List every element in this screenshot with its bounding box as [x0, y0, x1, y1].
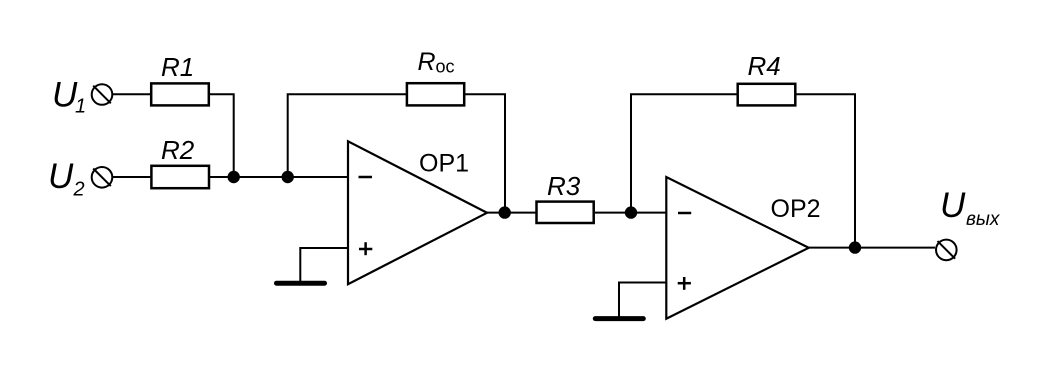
resistor R3 — [537, 202, 594, 223]
junction node OP2 output — [849, 241, 861, 253]
svg-text:U: U — [48, 157, 74, 196]
svg-text:OP1: OP1 — [419, 150, 469, 178]
wire: OP1 output to R3 left — [487, 212, 536, 214]
wire: Roc right, down to OP1 output node — [465, 94, 505, 212]
label Roc — [418, 48, 455, 77]
OP1 non-inverting input marker (plus) — [359, 242, 372, 255]
svg-text:R1: R1 — [161, 52, 194, 82]
svg-text:OP2: OP2 — [771, 195, 821, 223]
terminal U2 — [92, 167, 113, 188]
svg-text:U: U — [940, 186, 966, 225]
ground (OP2 non-inverting input) — [595, 316, 643, 321]
node U1 (input net label) — [52, 75, 86, 117]
junction node C (OP2 inverting input / feedback tap) — [625, 206, 637, 218]
resistor R4 (feedback resistor of OP2) — [738, 84, 796, 106]
terminal U1 — [92, 84, 113, 105]
ground (OP1 non-inverting input) — [277, 281, 325, 286]
OP1 inverting input marker (minus) — [359, 176, 373, 179]
svg-text:R: R — [418, 48, 436, 76]
wire: R3 right through node C to OP2 inverting input — [595, 212, 666, 214]
wire: OP2 non-inverting input to ground — [619, 283, 666, 317]
wire: R4 right, down to OP2 output node — [796, 94, 855, 247]
wire: terminal U1 to R1 left — [113, 93, 152, 95]
resistor R2 — [151, 166, 209, 188]
terminal Uвых (output) — [936, 240, 957, 261]
wire: R2 right through nodes A and B to OP1 inverting input — [210, 176, 348, 178]
svg-text:вых: вых — [966, 209, 1001, 230]
svg-text:R4: R4 — [748, 51, 781, 81]
svg-text:R3: R3 — [547, 171, 581, 201]
wire: R1 right, corner down to node A — [210, 94, 234, 177]
junction node OP1 output — [499, 206, 511, 218]
resistor R1 — [151, 83, 209, 105]
op-amp OP1 — [348, 141, 487, 284]
svg-text:R2: R2 — [161, 135, 195, 165]
wire: node C up and right to R4 left (feedback) — [631, 94, 737, 212]
OP2 non-inverting input marker (plus) — [678, 277, 691, 290]
wire: OP2 output to output terminal — [809, 247, 935, 249]
OP2 inverting input marker (minus) — [678, 212, 691, 215]
junction node A (summing point of R1 and R2) — [228, 171, 240, 183]
svg-text:2: 2 — [73, 178, 85, 200]
svg-text:ос: ос — [436, 57, 455, 77]
resistor Roc (feedback resistor of OP1) — [407, 83, 464, 105]
op-amp OP2 — [666, 177, 808, 319]
node Uвых (output net label) — [940, 186, 1001, 230]
wire: node B up and right to Roc left (feedback) — [288, 94, 406, 177]
junction node B (feedback tap) — [282, 171, 294, 183]
wire: OP1 non-inverting input to ground — [300, 248, 347, 281]
svg-text:1: 1 — [75, 96, 86, 118]
wire: terminal U2 to R2 left — [113, 176, 152, 178]
node U2 (input net label) — [48, 157, 85, 201]
